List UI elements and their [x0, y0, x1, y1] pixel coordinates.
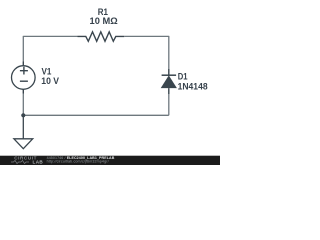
wire right branch upper	[168, 36, 170, 69]
voltage source V1	[11, 62, 35, 94]
wire top rail left segment	[23, 35, 77, 37]
wire right branch lower	[168, 94, 170, 115]
wire bottom rail	[23, 114, 169, 116]
svg-text:http://circuitlab.com/c/jf6m32: http://circuitlab.com/c/jf6m32mp4gr/	[47, 160, 109, 164]
watermark logo waveform	[11, 160, 29, 163]
resistor R1	[78, 32, 125, 41]
ground	[14, 115, 33, 148]
svg-text:10 V: 10 V	[41, 76, 59, 87]
svg-text:1N4148: 1N4148	[178, 81, 208, 92]
svg-text:LAB: LAB	[33, 159, 44, 164]
wire left branch lower	[22, 94, 24, 116]
wire left branch upper	[22, 36, 24, 62]
diode D1	[161, 69, 177, 94]
svg-text:10 MΩ: 10 MΩ	[90, 16, 118, 27]
watermark bar	[0, 156, 220, 165]
wire top rail right segment	[124, 35, 169, 37]
node junction dot	[21, 113, 25, 117]
